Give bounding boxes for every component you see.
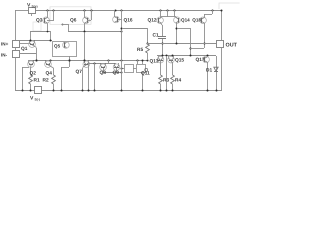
svg-text:Q12: Q12 [148,18,157,24]
svg-text:R1: R1 [34,78,40,84]
svg-text:Q11: Q11 [141,70,150,76]
svg-text:S(+): S(+) [32,5,38,9]
svg-text:IN+: IN+ [1,41,9,46]
svg-text:Q3: Q3 [36,18,43,24]
svg-text:Q17: Q17 [196,57,205,63]
svg-text:Q5: Q5 [54,44,61,49]
svg-text:Q7: Q7 [76,69,83,75]
svg-text:Q9: Q9 [113,70,120,76]
svg-text:Q18: Q18 [192,18,201,23]
svg-text:Q2: Q2 [30,71,37,77]
svg-text:R2: R2 [43,78,49,84]
svg-text:IN-: IN- [1,52,8,57]
svg-text:R3: R3 [163,77,169,83]
svg-text:R5: R5 [137,47,143,53]
svg-text:Q15: Q15 [175,57,184,63]
svg-text:Q14: Q14 [181,18,190,23]
svg-text:S(-): S(-) [35,98,40,102]
svg-text:OUT: OUT [226,42,238,48]
svg-text:Q13: Q13 [150,58,159,64]
svg-text:C1: C1 [153,32,159,38]
svg-text:Q8: Q8 [100,70,107,76]
svg-text:Q6: Q6 [70,18,77,24]
svg-text:Q4: Q4 [46,71,53,77]
svg-text:Q1: Q1 [21,46,28,52]
svg-text:Q16: Q16 [124,18,133,24]
svg-text:D1: D1 [206,68,212,74]
svg-text:R4: R4 [175,77,181,83]
